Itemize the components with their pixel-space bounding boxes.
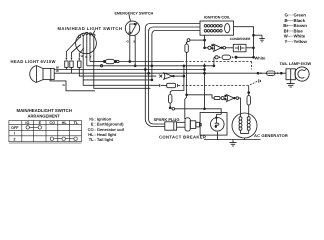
svg-text:2: 2 (13, 137, 15, 141)
svg-text:OFF: OFF (11, 126, 19, 130)
svg-text:AC GENERATOR: AC GENERATOR (254, 133, 288, 138)
wire: emergency drops (129, 34, 131, 61)
wire: headlight lead W (continues as tail feed bus y73.2) (54, 72, 286, 74)
wire: dashed into capsule to generator right (248, 86, 250, 96)
svg-text:Brown: Brown (294, 23, 308, 28)
wire: x183.9 vertical to connector chain (170, 66, 184, 95)
wire: sleeve3 riser to bus y76.1 (79, 67, 156, 76)
junction dots (129, 61, 131, 63)
pointer line from label to switch (93, 31, 96, 35)
contact breaker points (211, 117, 225, 131)
spark plug cap (165, 122, 177, 130)
wire: condenser right to white vertical (246, 47, 254, 49)
wire: dashed y85.5 to generator (178, 85, 249, 87)
table contacts row 2 (50, 137, 77, 140)
svg-text:Yellow: Yellow (294, 39, 308, 44)
svg-text:CONTACT BREAKER: CONTACT BREAKER (159, 135, 206, 140)
wire: vertical x204.5 (204, 64, 206, 109)
wire: ground stub (254, 34, 263, 36)
wire: x213.9 stub (213, 57, 215, 66)
headlight bulb (30, 66, 54, 83)
wire: jog and bus y85.3 (83, 80, 160, 85)
svg-text:W: W (56, 69, 59, 73)
svg-text:HEAD LIGHT 6V15W: HEAD LIGHT 6V15W (11, 59, 56, 64)
condenser C1 (233, 44, 246, 52)
svg-text:B: B (85, 55, 87, 59)
connector row2 on y85.5 (159, 84, 161, 87)
wire: bus y79.9 (83, 79, 152, 81)
connector arrows (65, 58, 67, 60)
svg-text:IGNITION COIL: IGNITION COIL (204, 15, 231, 19)
svg-text:: Tail light: : Tail light (94, 137, 113, 142)
wire: coil bottom drop x204.6 (204, 35, 206, 48)
svg-text:Blue: Blue (294, 28, 304, 33)
ground (tail lamp) (287, 80, 295, 87)
svg-text:Black: Black (294, 18, 306, 23)
svg-text:MAIN/HEAD LIGHT SWITCH: MAIN/HEAD LIGHT SWITCH (58, 26, 123, 31)
svg-text:I: I (14, 132, 15, 136)
colour legend (283, 13, 307, 45)
ground (coil secondary) (259, 35, 265, 42)
wire: fuse bus y61.5 (90, 61, 104, 63)
contact breaker box (200, 113, 227, 136)
svg-text:White: White (255, 55, 267, 60)
svg-text:CONDENSER: CONDENSER (230, 37, 251, 41)
wire: dashed continuation y61.5 (182, 61, 252, 63)
connector row1 on y76.1 (159, 75, 162, 78)
wire: points run y94.8-98.1 (187, 95, 215, 98)
wire: into breaker (215, 114, 217, 117)
svg-text:SPARK PLUG: SPARK PLUG (154, 117, 180, 122)
svg-text:ARRANGEMENT: ARRANGEMENT (28, 113, 61, 118)
wire: headlight ground lead G (50, 80, 95, 91)
switch arrangement table (9, 121, 82, 144)
svg-text:TL: TL (74, 121, 79, 125)
svg-text:CO: CO (49, 121, 55, 125)
wire: condenser to points w/ connector (205, 47, 208, 49)
connector chain x170 (169, 95, 172, 104)
wire: white feed run y57.3 (214, 56, 215, 58)
wire: switch diagonals to headlight connectors (66, 38, 79, 58)
wire: bus A y65.8 (87, 65, 214, 67)
wire: headlight lead Bl (continues as bus y69.5) (54, 69, 204, 71)
harness rounded corners into coil (145, 24, 200, 127)
HT lead w/ plug cap connector (190, 39, 205, 41)
tail feed connectors on bus y73.2 (257, 72, 259, 74)
table side legend (88, 116, 125, 142)
ignition coil T1 (200, 21, 234, 35)
svg-text:Green: Green (294, 13, 307, 18)
svg-text:HL: HL (62, 121, 68, 125)
svg-text:B: B (285, 18, 288, 23)
spark plug P1 (177, 118, 202, 131)
svg-text:White: White (294, 34, 306, 39)
svg-text:IG: IG (25, 121, 29, 125)
svg-text:Bl: Bl (284, 28, 288, 33)
svg-text:MAIN/HEADLIGHT SWITCH: MAIN/HEADLIGHT SWITCH (17, 108, 72, 113)
main switch SW1 (76, 32, 97, 53)
connector circle on bus A (100, 65, 102, 67)
svg-text:EMERGENCY SWITCH: EMERGENCY SWITCH (115, 12, 154, 16)
svg-text:Y: Y (285, 39, 288, 44)
tail lamp (286, 67, 309, 81)
svg-text:TL: TL (89, 137, 94, 142)
ground (engine) (230, 140, 237, 147)
wire: clover run y98.1 to generator (214, 97, 220, 100)
svg-text:W: W (81, 54, 84, 58)
svg-text:TAIL LAMP 6V3W: TAIL LAMP 6V3W (280, 62, 312, 66)
AC generator G1 (232, 113, 257, 138)
wire: switch terminal drops (82, 36, 84, 80)
svg-text:Y: Y (90, 55, 92, 59)
bullet connector sleeves (65, 61, 68, 67)
wire: ground bus under breaker/generator (217, 132, 219, 140)
svg-text:E: E (39, 121, 42, 125)
wire: coil secondary to ground (234, 27, 254, 58)
table contacts row OFF (26, 126, 42, 129)
emergency switch SW2 (125, 21, 139, 35)
